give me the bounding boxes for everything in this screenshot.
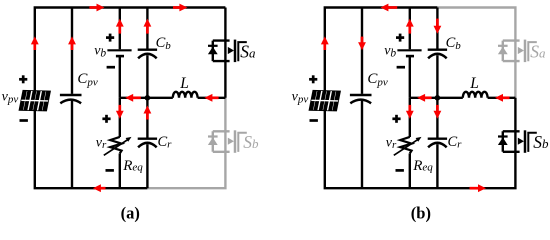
wire: middle wire left of inductor (120, 97, 173, 99)
current arrow down on C_b branch (434, 19, 442, 34)
wire: R_eq branch upper segment (409, 98, 411, 137)
resistor R_eq (variable) (104, 137, 132, 155)
minus sign of v_r (106, 169, 114, 172)
wire: battery branch upper segment (119, 8, 121, 50)
capacitor C_b (428, 50, 447, 59)
junction node dot at C_b/C_r tap (435, 95, 441, 101)
PV panel v_pv (19, 90, 51, 111)
plus sign of v_pv (309, 75, 317, 83)
MOSFET S_b (off) (208, 130, 247, 153)
PV panel v_pv (309, 90, 341, 111)
wire: C_pv branch upper segment (361, 8, 363, 94)
minus sign of v_r (396, 169, 404, 172)
svg-text:L: L (179, 75, 189, 92)
current arrow right on bottom wire (470, 184, 487, 192)
current arrow left on top wire (380, 4, 397, 12)
plus sign of v_pv (19, 75, 27, 83)
inductor L (463, 92, 488, 98)
wire: C_pv branch lower segment (71, 101, 73, 189)
current arrow up on C_r branch (144, 106, 152, 120)
MOSFET S_a (on) (208, 40, 247, 63)
wire: C_b branch lower segment (146, 55, 148, 98)
current arrow down on R_eq branch (406, 105, 414, 119)
wire: gray from S_a source down to middle node (514, 61, 516, 98)
inductor L (173, 92, 198, 98)
current arrow up on battery branch (406, 19, 414, 34)
minus sign of v_b (397, 66, 405, 69)
current arrow up on C_b branch (144, 19, 152, 34)
svg-text:(a): (a) (121, 204, 140, 223)
current arrow left right of inductor (495, 94, 510, 102)
wire: C_pv branch upper segment (71, 8, 73, 94)
circuit (b) (292, 4, 549, 223)
wire: gray from middle node down to S_b drain (224, 98, 226, 132)
wire: C_b branch upper segment (146, 8, 148, 49)
capacitor C_pv (350, 95, 372, 103)
current arrow down on C_pv branch (358, 37, 366, 51)
plus sign of v_b (106, 34, 114, 42)
capacitor C_pv (60, 95, 82, 103)
current arrow down on R_eq branch (116, 105, 124, 119)
minus sign of v_b (107, 66, 115, 69)
svg-text:L: L (469, 75, 479, 92)
current arrow left right of inductor (204, 94, 218, 102)
wire: C_b branch lower segment (436, 55, 438, 98)
wire: S_a drain from top wire (224, 8, 226, 41)
current arrow left on middle wire (417, 94, 432, 102)
battery v_b plates (107, 50, 131, 56)
wire: R_eq branch lower segment (409, 153, 411, 188)
current arrow up on battery branch (116, 19, 124, 34)
wire: middle wire right of inductor (488, 97, 516, 99)
wire: battery branch lower segment (409, 57, 411, 98)
current arrow up on C_pv branch (68, 36, 76, 50)
plus sign of v_r (392, 115, 400, 123)
current arrow right on top wire (left) (89, 4, 104, 12)
battery v_b plates (397, 50, 421, 56)
wire: middle wire right of inductor (198, 97, 226, 99)
wire: gray top-right wire and S_a branch (inactive) (437, 8, 515, 41)
current arrow down on C_r branch (434, 105, 442, 119)
MOSFET S_b (on) (498, 130, 537, 153)
wire: C_r branch lower segment (146, 144, 148, 188)
current arrow left on bottom wire (93, 184, 106, 192)
junction node dot at C_b/C_r tap (145, 95, 151, 101)
wire: C_pv branch lower segment (361, 101, 363, 189)
MOSFET S_a (off) (498, 40, 537, 63)
wire: left outer loop (top wire, left wire, bottom-left wire) (325, 8, 516, 189)
minus sign of v_pv (310, 119, 318, 122)
current arrow up on left wire (31, 36, 39, 50)
wire: left outer loop (top wire, left wire, bottom-left wire) (35, 8, 226, 189)
wire: battery branch upper segment (409, 8, 411, 50)
plus sign of v_r (102, 115, 110, 123)
svg-text:(b): (b) (411, 204, 431, 223)
plus sign of v_b (396, 34, 404, 42)
wire: S_a source down to middle wire (224, 61, 226, 98)
wire: C_r branch upper segment (436, 98, 438, 138)
wire: C_r branch upper segment (146, 98, 148, 138)
capacitor C_r (428, 139, 447, 148)
current arrow left on middle wire (125, 94, 141, 102)
resistor R_eq (variable) (394, 137, 422, 155)
wire: R_eq branch upper segment (119, 98, 121, 137)
wire: C_b branch upper segment (436, 8, 438, 49)
current arrow right on top wire (right) (173, 4, 187, 12)
minus sign of v_pv (20, 119, 28, 122)
circuit (a) (2, 4, 259, 223)
wire: S_b drain up to middle wire (514, 98, 516, 132)
wire: C_r branch lower segment (436, 144, 438, 188)
wire: R_eq branch lower segment (119, 153, 121, 188)
wire: gray bottom-right wire and S_b branch (inactive) (147, 152, 225, 189)
capacitor C_r (138, 139, 157, 148)
wire: middle wire left of inductor (410, 97, 463, 99)
wire: battery branch lower segment (119, 57, 121, 98)
current arrow up on left wire (321, 36, 329, 50)
capacitor C_b (138, 50, 157, 59)
